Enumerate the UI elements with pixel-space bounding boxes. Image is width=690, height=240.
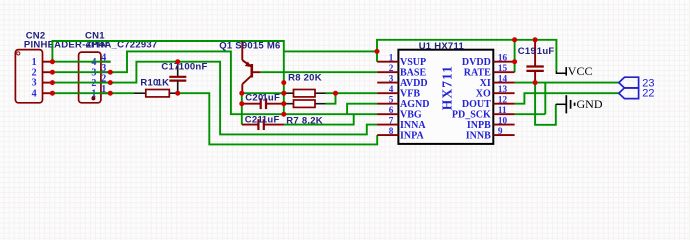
capacitor C20 — [242, 98, 284, 109]
svg-text:INNA: INNA — [400, 120, 426, 131]
svg-text:XI: XI — [480, 78, 491, 89]
wire R7 right riser to VFB node — [326, 93, 336, 104]
svg-text:BASE: BASE — [400, 67, 426, 78]
svg-text:RATE: RATE — [464, 67, 491, 78]
junction DVDD rail node — [512, 37, 517, 42]
junction AVDD vertical row5 — [281, 101, 286, 106]
junction VSUP branch node — [375, 49, 380, 54]
svg-text:VCC: VCC — [568, 64, 593, 78]
port 22 — [619, 88, 655, 100]
svg-text:AGND: AGND — [400, 99, 429, 110]
junction C20 left node — [239, 101, 244, 106]
svg-text:100nF: 100nF — [179, 62, 208, 73]
svg-text:2: 2 — [389, 63, 394, 73]
wire C21 right to row6 — [284, 114, 354, 124]
pin 10 INPB — [493, 124, 514, 126]
junction C19 bottom node — [533, 80, 538, 85]
connector CN1 — [79, 52, 111, 103]
junction C17 bottom node — [175, 91, 180, 96]
svg-text:1uF: 1uF — [262, 115, 280, 126]
svg-text:14: 14 — [498, 73, 508, 83]
svg-text:8: 8 — [389, 126, 394, 136]
IC U1 HX711 — [377, 50, 514, 144]
junction C19 rail node — [533, 37, 538, 42]
pin 1 VSUP — [377, 61, 398, 63]
svg-text:6: 6 — [389, 105, 394, 115]
capacitor C17 — [169, 62, 186, 93]
junction CN2 pin3 node — [50, 80, 55, 85]
svg-text:AVDD: AVDD — [400, 78, 428, 89]
svg-text:1uF: 1uF — [537, 46, 555, 57]
svg-text:9: 9 — [498, 126, 503, 136]
svg-text:XO: XO — [476, 88, 491, 99]
wire net row1 CN2.1 riser and top VCC rail — [52, 41, 283, 114]
pin 6 VBG — [377, 113, 398, 115]
wire XI row to port 23 — [515, 82, 620, 84]
svg-text:INNB: INNB — [466, 130, 491, 141]
svg-text:7: 7 — [389, 115, 394, 125]
junction VFB divider node — [333, 91, 338, 96]
pin 15 RATE — [493, 71, 514, 73]
svg-text:1K: 1K — [157, 78, 170, 89]
resistor R10 — [134, 90, 178, 97]
pin 5 AGND — [377, 103, 398, 105]
wire net row2 CN2.2 to VBG row — [52, 51, 377, 114]
junction CN2 pin4 node — [50, 91, 55, 96]
pin 13 XO — [493, 92, 514, 94]
svg-text:U1 HX711: U1 HX711 — [419, 41, 465, 52]
power flag VCC — [556, 64, 592, 78]
svg-text:VBG: VBG — [400, 109, 422, 120]
svg-text:Q1 S9015 M6: Q1 S9015 M6 — [219, 40, 280, 51]
wire Q1 base to BASE pin2 — [260, 71, 377, 73]
transistor Q1 S9015 PNP — [242, 41, 260, 93]
junction AVDD vertical row3 — [281, 80, 286, 85]
connector CN2 — [15, 50, 52, 103]
wire AVDD collector to vertical — [242, 92, 284, 94]
svg-text:PD_SCK: PD_SCK — [452, 109, 491, 120]
svg-text:11: 11 — [498, 105, 507, 115]
svg-text:1: 1 — [389, 53, 394, 63]
junction CN2 pin1 node — [50, 59, 55, 64]
wire XI to PD_SCK vertical — [544, 83, 546, 115]
svg-text:13: 13 — [498, 84, 508, 94]
svg-text:2: 2 — [32, 67, 37, 78]
svg-text:C21: C21 — [245, 115, 264, 126]
svg-text:VFB: VFB — [400, 88, 420, 99]
wire DVDD RATE drop — [514, 40, 516, 72]
power flag GND — [556, 95, 603, 113]
pin 14 XI — [493, 82, 514, 84]
capacitor C21 — [242, 119, 284, 130]
svg-text:12: 12 — [498, 95, 508, 105]
junction AVDD vertical row6 — [281, 112, 286, 117]
junction CN1 pin1 tap — [108, 91, 113, 96]
svg-text:C19: C19 — [518, 46, 536, 57]
wire VSUP branch to chip top rail and VCC drop — [284, 50, 377, 52]
wire row1 stub CN2.1 to CN1.4 — [52, 61, 110, 63]
junction pin16 node — [512, 59, 517, 64]
svg-text:1: 1 — [32, 57, 37, 68]
svg-text:3: 3 — [32, 78, 37, 89]
svg-text:R7 8.2K: R7 8.2K — [286, 116, 323, 127]
wire GND loop — [535, 83, 556, 125]
junction C17 top node — [175, 59, 180, 64]
svg-text:INPB: INPB — [467, 120, 491, 131]
junction Q1 collector node — [239, 91, 244, 96]
svg-text:3: 3 — [389, 73, 394, 83]
junction CN1 pin2 tap — [108, 80, 113, 85]
wire net row4 CN2.4 to R10 — [52, 92, 134, 94]
junction CN1 pin3 tap — [108, 70, 113, 75]
wire net row3 CN2.3 to INNA pin7 — [52, 62, 377, 135]
svg-text:GND: GND — [577, 97, 603, 111]
svg-text:R8 20K: R8 20K — [288, 73, 322, 84]
pin 4 VFB — [377, 92, 398, 94]
svg-text:VSUP: VSUP — [400, 57, 426, 68]
svg-text:16: 16 — [498, 53, 508, 63]
pin 12 DOUT — [493, 103, 514, 105]
svg-text:C20: C20 — [245, 93, 263, 104]
resistor R8 — [284, 90, 326, 97]
svg-text:4: 4 — [389, 84, 394, 94]
junction AVDD vertical row4 — [281, 91, 286, 96]
svg-text:4: 4 — [32, 88, 37, 99]
pin 7 INNA — [377, 124, 398, 126]
svg-text:DOUT: DOUT — [462, 99, 491, 110]
pin 3 AVDD — [377, 82, 398, 84]
resistor R7 — [284, 100, 326, 107]
pin 8 INPA — [377, 134, 398, 136]
svg-text:INPA: INPA — [400, 130, 424, 141]
svg-text:22: 22 — [642, 88, 654, 100]
svg-text:DVDD: DVDD — [462, 57, 491, 68]
svg-text:10: 10 — [498, 115, 508, 125]
wire R8 right to VFB pin4 — [326, 92, 378, 94]
wire AVDD vertical down to C21 — [241, 93, 243, 124]
svg-text:5: 5 — [389, 95, 394, 105]
wire chip top rail — [377, 40, 556, 71]
pin 16 DVDD — [493, 61, 514, 63]
junction CN2 pin2 node — [50, 70, 55, 75]
svg-text:HX711: HX711 — [440, 65, 455, 110]
pin 2 BASE — [377, 71, 398, 73]
wire PD_SCK stub — [515, 113, 546, 115]
capacitor C19 — [526, 40, 543, 83]
wire AGND jog to pin5 — [347, 104, 377, 115]
pin 9 INNB — [493, 134, 514, 136]
wire C17 bottom to INPA pin8 — [178, 93, 378, 144]
pin 11 PD_SCK — [493, 113, 514, 115]
svg-text:1uF: 1uF — [262, 93, 280, 104]
port 23 — [619, 77, 655, 89]
wire DOUT jog to port 22 — [515, 93, 620, 104]
svg-text:15: 15 — [498, 63, 508, 73]
